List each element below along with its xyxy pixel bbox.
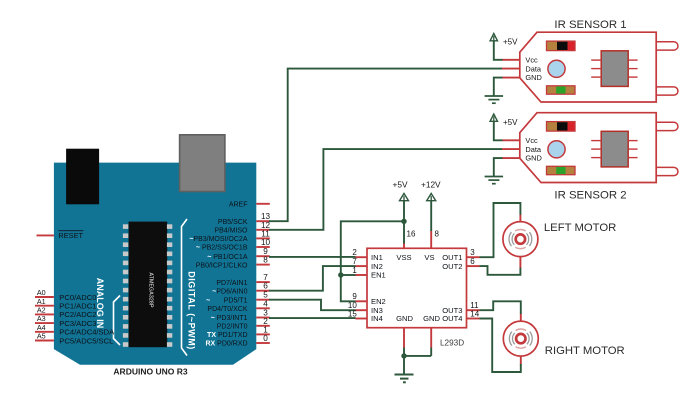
Arduino digital pin 5 PD5/T1: [206, 291, 270, 305]
svg-text:+5V: +5V: [503, 118, 518, 127]
svg-text:Vcc: Vcc: [525, 55, 538, 64]
IR sensor module IR2 body: [520, 113, 656, 183]
L293D pin 11 OUT3: [442, 301, 479, 315]
IR2 pin Vcc: [502, 136, 538, 145]
Arduino digital pin 10 PB2/SS/OC1B: [196, 238, 271, 252]
svg-text:A2: A2: [37, 306, 46, 315]
IR2 pin Data: [502, 145, 542, 154]
Arduino digital pin 6 PD6/AIN0: [212, 282, 270, 296]
power +12V supply for L293D VS: [421, 179, 441, 231]
svg-text:AREF: AREF: [229, 201, 248, 208]
L293D pin 8 VS: [424, 230, 439, 262]
svg-text:10: 10: [261, 238, 271, 247]
Arduino analog pin A1 PC1/ADC1: [35, 297, 96, 311]
label IR SENSOR 1: [554, 19, 626, 31]
IR2 pin GND: [502, 154, 542, 163]
IR1 indicator LED: [548, 60, 565, 77]
Arduino digital pin 4 PD4/T0/XCK: [207, 299, 269, 313]
Arduino digital pin 7 PD7/AIN1: [216, 273, 269, 287]
svg-text:PC4/ADC4/SDA: PC4/ADC4/SDA: [59, 328, 115, 337]
Arduino analog pin A2 PC2/ADC2: [35, 306, 96, 320]
svg-text:15: 15: [348, 309, 357, 318]
Arduino digital pin 1 PD1/TXD: [207, 325, 270, 339]
svg-text:PD2/INT0: PD2/INT0: [217, 324, 248, 331]
svg-text:IR SENSOR 1: IR SENSOR 1: [554, 19, 626, 31]
svg-text:PC0/ADC0: PC0/ADC0: [59, 293, 96, 302]
motor driver U2 L293D body: [367, 248, 467, 347]
IR1 IR emitter LED: [656, 42, 678, 50]
ground symbol for IR2: [485, 177, 504, 184]
wire Arduino pin9 to L293D IN1: [269, 256, 356, 258]
wire L293D OUT3 to right motor +: [480, 301, 521, 314]
label IR SENSOR 2: [554, 190, 626, 202]
svg-text:~ PB2/SS/OC1B: ~ PB2/SS/OC1B: [196, 245, 248, 252]
L293D pin 16 VSS: [396, 230, 416, 262]
wire L293D OUT4 to right motor -: [480, 319, 521, 373]
L293D pin 6 OUT2: [442, 257, 479, 271]
Arduino analog pin A4 PC4/ADC4/SDA: [35, 323, 115, 337]
IR1 IR receiver LED: [656, 87, 678, 95]
junction node EN1 branch: [338, 272, 343, 277]
svg-text:RESET: RESET: [58, 231, 83, 240]
svg-text:PC2/ADC2: PC2/ADC2: [59, 310, 96, 319]
svg-text:VS: VS: [424, 253, 434, 262]
L293D pin 15 IN4: [348, 309, 383, 323]
svg-text:DIGITAL (~PWM): DIGITAL (~PWM): [187, 271, 197, 350]
L293D pin 1 EN1: [352, 266, 385, 280]
svg-text:Data: Data: [525, 145, 542, 154]
svg-text:ARDUINO UNO R3: ARDUINO UNO R3: [113, 366, 187, 376]
svg-text:0: 0: [263, 334, 268, 343]
IR1 pin Data: [502, 64, 542, 73]
svg-text:+12V: +12V: [421, 179, 441, 189]
L293D pin 2 IN1: [352, 248, 382, 262]
svg-text:GND: GND: [525, 154, 541, 163]
Arduino analog pin A5 PC5/ADC5/SCL: [35, 332, 113, 346]
svg-text:RX PD0/RXD: RX PD0/RXD: [205, 341, 247, 348]
Arduino digital pin 13 PB5/SCK: [218, 212, 271, 226]
svg-text:PD7/AIN1: PD7/AIN1: [216, 280, 247, 287]
svg-text:PC5/ADC5/SCL: PC5/ADC5/SCL: [59, 336, 113, 345]
svg-text:PB4/MISO: PB4/MISO: [214, 228, 248, 235]
svg-text:8: 8: [263, 256, 268, 265]
svg-text:14: 14: [470, 309, 479, 318]
Arduino UNO R3 board body: [54, 163, 256, 365]
wire L293D OUT1 to left motor +: [480, 203, 521, 257]
svg-text:GND: GND: [423, 314, 440, 323]
L293D GND pins: [396, 314, 440, 347]
svg-text:~ PD5/T1: ~ PD5/T1: [206, 297, 248, 304]
left motor M1: [503, 214, 538, 268]
IR2 chip resistor R-top: [547, 122, 576, 132]
wire Arduino pin12 to IR sensor 2 Data: [269, 149, 502, 230]
IR1 pin GND: [502, 73, 542, 82]
IR2 indicator LED: [548, 141, 565, 158]
svg-text:ATMEGA328P: ATMEGA328P: [148, 272, 154, 308]
power +5V supply for IR2: [490, 114, 518, 140]
IR2 IR receiver LED: [656, 167, 678, 175]
svg-text:IN2: IN2: [371, 262, 383, 271]
svg-text:GND: GND: [525, 73, 541, 82]
svg-text:OUT1: OUT1: [442, 253, 462, 262]
Arduino digital pin 2 PD2/INT0: [217, 317, 270, 331]
Arduino digital pin 8 PB0/ICP1/CLKO: [196, 256, 270, 270]
ground symbol below L293D: [395, 375, 414, 383]
Arduino RESET pin: [37, 231, 84, 241]
L293D pin 9 EN2: [352, 292, 385, 306]
svg-text:A3: A3: [37, 314, 46, 323]
svg-text:16: 16: [407, 230, 416, 239]
svg-text:EN2: EN2: [371, 297, 386, 306]
svg-text:2: 2: [352, 248, 357, 257]
Arduino analog pin A3 PC3/ADC3: [35, 314, 96, 328]
power +5V supply for IR1: [490, 34, 518, 60]
IR1 chip resistor R-top: [547, 41, 576, 51]
wire L293D OUT2 to left motor -: [480, 266, 521, 275]
Arduino ANALOG IN group label: [95, 278, 105, 329]
svg-text:~ PB1/OC1A: ~ PB1/OC1A: [207, 254, 248, 261]
Arduino DC power jack: [66, 149, 99, 205]
svg-text:Vcc: Vcc: [525, 136, 538, 145]
svg-text:RIGHT MOTOR: RIGHT MOTOR: [545, 345, 625, 357]
svg-text:A4: A4: [37, 323, 46, 332]
IR1 chip resistor R-bottom: [547, 86, 576, 94]
L293D pin 3 OUT1: [442, 248, 479, 262]
svg-text:OUT4: OUT4: [442, 314, 462, 323]
svg-text:9: 9: [352, 292, 357, 301]
Arduino board caption: [113, 366, 187, 376]
Arduino digital pin 3 PD3/INT1: [211, 309, 270, 323]
wire IR2 GND to ground: [494, 158, 503, 176]
right motor M2: [503, 313, 538, 365]
svg-text:IN4: IN4: [371, 314, 383, 323]
svg-text:3: 3: [470, 248, 475, 257]
Arduino digital group bracket: [182, 219, 188, 356]
svg-text:A5: A5: [37, 332, 46, 341]
IR1 comparator IC: [591, 51, 637, 87]
IR2 comparator IC: [591, 131, 637, 167]
L293D pin 7 IN2: [352, 257, 382, 271]
L293D pin 14 OUT4: [442, 309, 480, 323]
svg-text:IR SENSOR 2: IR SENSOR 2: [554, 190, 626, 202]
svg-text:VSS: VSS: [396, 253, 411, 262]
Arduino analog pin A0 PC0/ADC0: [35, 288, 96, 302]
Arduino AREF pin: [229, 201, 270, 208]
svg-text:LEFT MOTOR: LEFT MOTOR: [544, 222, 616, 234]
IR2 IR emitter LED: [656, 122, 678, 130]
svg-text:TX PD1/TXD: TX PD1/TXD: [207, 332, 247, 339]
Arduino digital pin 0 PD0/RXD: [205, 334, 269, 348]
svg-text:+5V: +5V: [393, 179, 408, 189]
label RIGHT MOTOR: [545, 345, 625, 357]
label LEFT MOTOR: [544, 222, 616, 234]
IR sensor module IR1 body: [520, 32, 656, 102]
svg-text:GND: GND: [396, 314, 413, 323]
wire Arduino pin5 to L293D IN3: [269, 300, 356, 311]
svg-text:+5V: +5V: [503, 37, 518, 46]
svg-text:8: 8: [435, 230, 440, 239]
svg-text:PB0/ICP1/CLKO: PB0/ICP1/CLKO: [196, 262, 248, 269]
svg-text:4: 4: [263, 299, 268, 308]
svg-text:L293D: L293D: [440, 339, 464, 348]
junction node GND: [401, 353, 406, 358]
svg-text:OUT2: OUT2: [442, 262, 462, 271]
ground symbol for IR1: [485, 96, 504, 103]
svg-text:A1: A1: [37, 297, 46, 306]
wire +5V rail to EN1 and EN2: [341, 221, 404, 301]
junction node +5V/VSS: [401, 219, 406, 224]
Arduino digital pin 12 PB4/MISO: [214, 221, 270, 235]
svg-text:IN1: IN1: [371, 253, 383, 262]
wire L293D GND pins to ground: [403, 348, 431, 375]
svg-text:Data: Data: [525, 64, 542, 73]
Arduino digital pin 9 PB1/OC1A: [207, 247, 270, 261]
svg-text:A0: A0: [37, 288, 46, 297]
svg-text:6: 6: [263, 282, 268, 291]
wire Arduino pin6 to L293D IN2: [269, 266, 356, 291]
svg-text:PB5/SCK: PB5/SCK: [218, 219, 248, 226]
svg-text:1: 1: [352, 266, 357, 275]
svg-text:PC3/ADC3: PC3/ADC3: [59, 319, 96, 328]
svg-text:PC1/ADC1: PC1/ADC1: [59, 302, 96, 311]
svg-text:6: 6: [470, 257, 475, 266]
Arduino USB connector: [180, 135, 225, 192]
wire Arduino pin13 to IR sensor 1 Data: [269, 69, 502, 222]
svg-text:~PB3/MOSI/OC2A: ~PB3/MOSI/OC2A: [189, 236, 247, 243]
ATMEGA328P MCU chip U-MCU: [123, 222, 172, 348]
Arduino analog group bracket: [114, 296, 121, 346]
IR2 chip resistor R-bottom: [547, 166, 576, 174]
IR1 pin Vcc: [502, 55, 538, 64]
Arduino DIGITAL (~PWM) group label: [187, 271, 197, 350]
svg-text:EN1: EN1: [371, 271, 386, 280]
Arduino digital pin 11 PB3/MOSI/OC2A: [189, 229, 270, 243]
svg-text:~PD6/AIN0: ~PD6/AIN0: [212, 288, 247, 295]
svg-text:PD4/T0/XCK: PD4/T0/XCK: [207, 306, 247, 313]
wire Arduino pin3 to L293D IN4: [269, 317, 356, 319]
svg-text:~ PD3/INT1: ~ PD3/INT1: [211, 315, 248, 322]
svg-text:7: 7: [352, 257, 357, 266]
power +5V supply for L293D VSS: [393, 179, 409, 243]
wire IR1 GND to ground: [494, 78, 503, 96]
svg-text:ANALOG IN: ANALOG IN: [95, 278, 105, 329]
L293D pin 10 IN3: [348, 301, 383, 315]
